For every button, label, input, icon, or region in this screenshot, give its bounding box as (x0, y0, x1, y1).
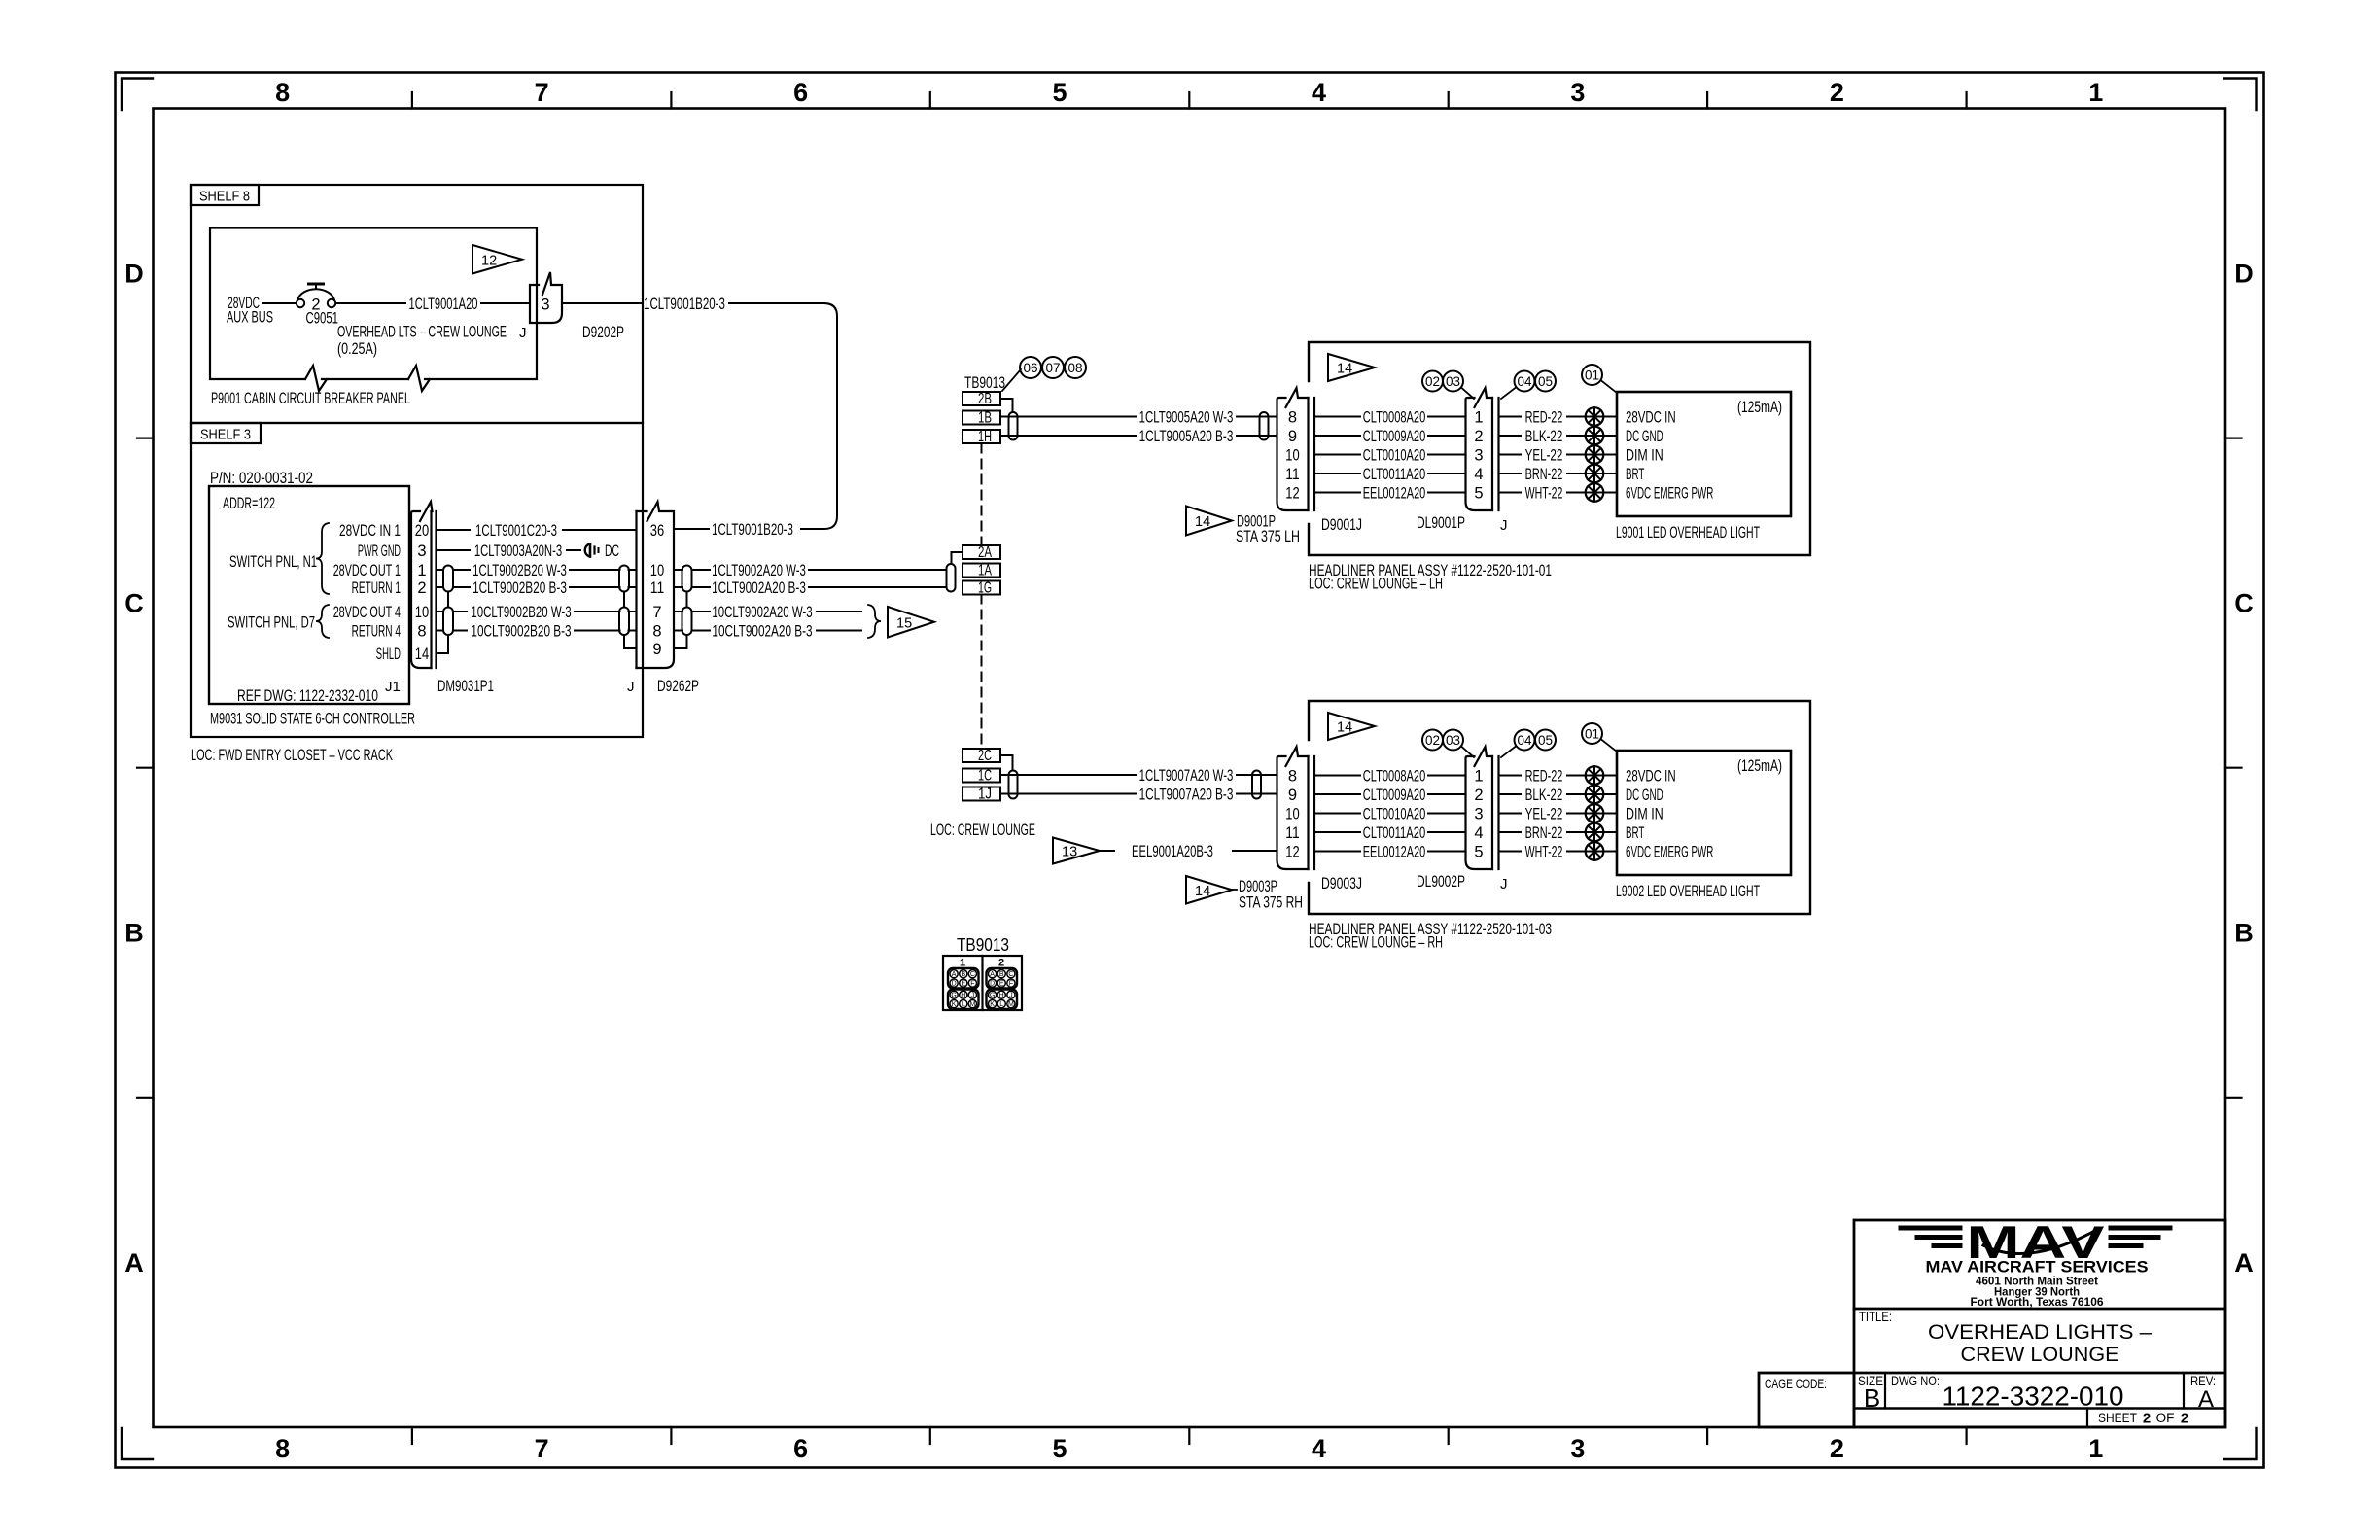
svg-text:H: H (961, 993, 965, 999)
DC ground symbol (585, 542, 619, 560)
svg-text:CLT0011A20: CLT0011A20 (1363, 824, 1426, 842)
controller pin function labels (333, 522, 401, 663)
svg-text:F: F (1009, 981, 1013, 988)
svg-text:28VDC IN 1: 28VDC IN 1 (339, 522, 401, 540)
svg-text:5: 5 (1474, 843, 1483, 860)
svg-text:REF DWG: 1122-2332-010: REF DWG: 1122-2332-010 (237, 687, 378, 705)
shielded pair 10CLT9002B20 wires W-3 / B-3 (437, 604, 620, 641)
svg-text:C: C (2234, 589, 2254, 618)
wire BRN-22 with LED lamp (1499, 465, 1618, 483)
svg-text:36: 36 (650, 522, 664, 540)
balloon 01 with leader (1582, 723, 1617, 752)
wire CLT0011A20 (1314, 824, 1466, 842)
svg-text:LOC: CREW LOUNGE: LOC: CREW LOUNGE (930, 822, 1035, 839)
connector DL9002P pins 1-5 (1417, 747, 1508, 892)
svg-text:DC: DC (605, 542, 619, 560)
label LOC: FWD ENTRY CLOSET - VCC RACK (191, 747, 393, 764)
svg-text:P/N: 020-0031-02: P/N: 020-0031-02 (210, 470, 313, 487)
svg-text:SWITCH PNL, N1: SWITCH PNL, N1 (229, 553, 317, 571)
svg-text:RED-22: RED-22 (1525, 767, 1563, 785)
label SWITCH PNL, D7 with brace (227, 605, 329, 638)
svg-text:BLK-22: BLK-22 (1525, 428, 1563, 445)
svg-text:2: 2 (1830, 78, 1844, 107)
svg-text:TB9013: TB9013 (964, 374, 1005, 392)
svg-text:3: 3 (417, 542, 426, 560)
svg-text:OVERHEAD LIGHTS –: OVERHEAD LIGHTS – (1928, 1321, 2152, 1344)
svg-text:L9002 LED OVERHEAD LIGHT: L9002 LED OVERHEAD LIGHT (1616, 883, 1760, 900)
brace and flag note 15 (868, 605, 934, 638)
terminal 1B (962, 410, 1000, 427)
svg-text:PWR GND: PWR GND (358, 542, 401, 560)
svg-text:08: 08 (1067, 361, 1082, 375)
label OVERHEAD LTS - CREW LOUNGE (0.25A) (337, 324, 507, 359)
svg-text:CLT0010A20: CLT0010A20 (1363, 805, 1426, 822)
svg-text:07: 07 (1045, 361, 1060, 375)
svg-text:28VDC OUT 4: 28VDC OUT 4 (333, 604, 401, 621)
svg-text:1A: 1A (978, 563, 992, 579)
svg-text:RETURN 4: RETURN 4 (352, 622, 401, 640)
svg-text:2: 2 (1474, 428, 1483, 445)
label LOC: CREW LOUNGE (930, 822, 1035, 839)
svg-text:D9202P: D9202P (582, 324, 624, 341)
shield capsule at TB9013 middle (947, 564, 956, 592)
svg-text:05: 05 (1538, 374, 1553, 389)
svg-text:C: C (970, 971, 975, 978)
svg-text:L: L (962, 1001, 965, 1008)
terminal block TB9013 label with leader (964, 369, 1021, 392)
svg-text:EEL9001A20B-3: EEL9001A20B-3 (1132, 843, 1213, 860)
svg-text:11: 11 (1285, 824, 1299, 842)
shield capsule before D9001J (1260, 412, 1269, 440)
shield capsule at TB9013 upper (1009, 412, 1018, 440)
svg-text:14: 14 (1195, 514, 1210, 530)
terminal 1A (962, 563, 1000, 579)
svg-text:SWITCH PNL, D7: SWITCH PNL, D7 (227, 614, 315, 632)
svg-text:6VDC EMERG PWR: 6VDC EMERG PWR (1626, 484, 1713, 502)
svg-text:A: A (2198, 1386, 2214, 1413)
svg-text:1: 1 (1474, 767, 1483, 785)
svg-text:BLK-22: BLK-22 (1525, 787, 1563, 804)
svg-text:28VDC OUT 1: 28VDC OUT 1 (333, 562, 401, 579)
svg-text:H: H (999, 993, 1004, 999)
wire 1CLT9005A20 W-3 (1000, 408, 1277, 426)
wire CLT0008A20 (1314, 767, 1466, 785)
cage code box (1759, 1373, 1854, 1427)
svg-text:C: C (1008, 971, 1013, 978)
svg-text:A: A (124, 1248, 144, 1277)
svg-text:06: 06 (1023, 361, 1037, 375)
svg-text:8: 8 (275, 1434, 290, 1463)
wire BLK-22 with LED lamp (1499, 427, 1618, 445)
headliner panel assembly box 1122-2520-101-03 (1309, 701, 1810, 952)
wire 10CLT9002A20 W-3 to flag 15 (692, 604, 862, 621)
svg-text:J1: J1 (385, 679, 401, 695)
svg-text:4: 4 (1312, 78, 1326, 107)
svg-text:C: C (124, 589, 144, 618)
svg-text:10: 10 (1285, 805, 1299, 822)
svg-text:3: 3 (541, 297, 549, 314)
svg-text:2: 2 (2181, 1411, 2188, 1427)
svg-text:8: 8 (652, 622, 661, 640)
svg-text:Fort Worth, Texas 76106: Fort Worth, Texas 76106 (1971, 1297, 2104, 1309)
svg-text:DL9001P: DL9001P (1417, 514, 1465, 532)
svg-text:B: B (124, 919, 144, 948)
svg-text:28VDC IN: 28VDC IN (1626, 408, 1676, 426)
wire 10CLT9002A20 B-3 to flag 15 (692, 622, 862, 640)
svg-text:9: 9 (1288, 428, 1297, 445)
svg-text:K: K (952, 1001, 957, 1008)
svg-text:SHELF 8: SHELF 8 (199, 189, 250, 205)
svg-text:CLT0008A20: CLT0008A20 (1363, 767, 1426, 785)
svg-text:01: 01 (1585, 726, 1599, 741)
svg-text:CLT0008A20: CLT0008A20 (1363, 408, 1426, 426)
sheet 2 of 2 (2098, 1411, 2188, 1427)
svg-text:OF: OF (2156, 1411, 2175, 1425)
svg-text:11: 11 (1285, 466, 1299, 483)
svg-text:D: D (952, 981, 957, 988)
connector DL9001P pins 1-5 (1417, 388, 1508, 534)
balloon 01 with leader (1582, 365, 1617, 393)
svg-text:AUX BUS: AUX BUS (227, 309, 273, 327)
svg-text:14: 14 (1337, 362, 1352, 377)
drawing frame inner border (154, 109, 2226, 1428)
wire 1CLT9003A20N-3 to DC ground (437, 542, 581, 560)
svg-text:DM9031P1: DM9031P1 (437, 678, 494, 695)
wire 1CLT9002A20 W-3 (692, 562, 947, 579)
svg-text:04: 04 (1517, 733, 1532, 748)
LED overhead light L9001 (125mA) (1616, 392, 1791, 542)
svg-text:2: 2 (2143, 1411, 2151, 1427)
svg-text:1G: 1G (978, 580, 992, 597)
wire 1CLT9001B20-3 from D9202P to D9262P pin 36 (562, 296, 837, 539)
svg-text:8: 8 (275, 78, 290, 107)
svg-text:CAGE CODE:: CAGE CODE: (1765, 1377, 1827, 1391)
svg-text:10CLT9002B20 B-3: 10CLT9002B20 B-3 (471, 622, 571, 640)
svg-text:L9001 LED OVERHEAD LIGHT: L9001 LED OVERHEAD LIGHT (1616, 524, 1760, 542)
svg-text:9: 9 (1288, 787, 1297, 804)
svg-text:8: 8 (1288, 408, 1297, 426)
svg-text:D9003J: D9003J (1321, 875, 1362, 892)
svg-text:1CLT9005A20 B-3: 1CLT9005A20 B-3 (1139, 428, 1234, 445)
wire YEL-22 with LED lamp (1499, 445, 1618, 464)
svg-text:10: 10 (650, 562, 664, 579)
svg-text:C9051: C9051 (306, 310, 339, 328)
svg-text:1CLT9002A20 B-3: 1CLT9002A20 B-3 (712, 579, 806, 597)
svg-text:EEL0012A20: EEL0012A20 (1363, 843, 1426, 860)
connector D9003J pins 8-12 (1277, 747, 1363, 892)
LED overhead light L9002 (125mA) (1616, 751, 1791, 900)
SHELF 8 enclosure box (191, 185, 643, 423)
MAV logo (1901, 1216, 2170, 1309)
svg-text:CLT0009A20: CLT0009A20 (1363, 787, 1426, 804)
svg-text:8: 8 (417, 622, 426, 640)
wire 1CLT9007A20 W-3 (1000, 767, 1277, 785)
wire BRN-22 with LED lamp (1499, 823, 1618, 842)
svg-text:B: B (999, 971, 1004, 978)
controller M9031 box ADDR=122 (209, 486, 415, 728)
flag note 14 inside panel (1328, 713, 1375, 740)
title block frame (1854, 1220, 2225, 1427)
svg-text:1: 1 (960, 958, 965, 969)
svg-text:DIM IN: DIM IN (1626, 805, 1663, 822)
svg-text:1B: 1B (978, 410, 992, 427)
dashed shield bus line upper (981, 444, 983, 545)
svg-text:E: E (961, 981, 965, 988)
svg-text:WHT-22: WHT-22 (1525, 484, 1563, 502)
connector DM9031P1 (J1) pins 20,3,1,2,10,8,14 (385, 502, 494, 695)
balloons 04 05 with leader (1501, 730, 1556, 758)
svg-text:1CLT9002A20 W-3: 1CLT9002A20 W-3 (712, 562, 806, 579)
svg-text:1CLT9001C20-3: 1CLT9001C20-3 (475, 522, 557, 540)
svg-text:10CLT9002A20 W-3: 10CLT9002A20 W-3 (712, 604, 812, 621)
flag note 14 at D9003P STA 375 RH (1186, 876, 1303, 912)
svg-text:RED-22: RED-22 (1525, 408, 1563, 426)
svg-text:J: J (1009, 993, 1013, 999)
svg-text:E: E (999, 981, 1004, 988)
svg-text:P9001 CABIN CIRCUIT BREAKER PA: P9001 CABIN CIRCUIT BREAKER PANEL (211, 390, 410, 407)
svg-text:2A: 2A (978, 544, 992, 561)
svg-text:1CLT9001B20-3: 1CLT9001B20-3 (712, 521, 793, 539)
shield capsules right of D9262P (674, 566, 692, 649)
svg-text:BRN-22: BRN-22 (1525, 824, 1563, 842)
flag note 14 at D9001P STA 375 LH (1186, 507, 1300, 546)
balloons 02 03 with leader (1422, 371, 1474, 400)
svg-text:1CLT9002B20 W-3: 1CLT9002B20 W-3 (472, 562, 567, 579)
svg-text:7: 7 (535, 1434, 549, 1463)
svg-text:2: 2 (417, 579, 426, 597)
svg-text:LOC: CREW LOUNGE – LH: LOC: CREW LOUNGE – LH (1309, 576, 1443, 593)
svg-text:6: 6 (793, 78, 808, 107)
svg-text:10: 10 (415, 604, 429, 621)
svg-text:6VDC EMERG PWR: 6VDC EMERG PWR (1626, 843, 1713, 860)
svg-text:5: 5 (1474, 484, 1483, 502)
svg-text:CREW LOUNGE: CREW LOUNGE (1961, 1344, 2119, 1366)
SHELF 3 enclosure box (191, 423, 643, 737)
terminal block TB9013 detail view (943, 934, 1022, 1010)
svg-text:D: D (2234, 260, 2254, 289)
svg-text:02: 02 (1425, 374, 1440, 389)
wire CLT0011A20 (1314, 466, 1466, 483)
svg-text:1: 1 (417, 562, 426, 579)
svg-text:7: 7 (652, 604, 661, 621)
svg-text:B: B (961, 971, 965, 978)
svg-text:BRN-22: BRN-22 (1525, 466, 1563, 483)
svg-text:14: 14 (1337, 720, 1352, 736)
svg-text:1CLT9007A20 B-3: 1CLT9007A20 B-3 (1139, 786, 1234, 803)
wire WHT-22 with LED lamp (1499, 842, 1618, 860)
label P/N: 020-0031-02 (210, 470, 313, 487)
svg-text:CLT0011A20: CLT0011A20 (1363, 466, 1426, 483)
svg-text:STA 375 RH: STA 375 RH (1239, 894, 1303, 912)
svg-text:M: M (1008, 1001, 1014, 1008)
wire RED-22 with LED lamp (1499, 766, 1618, 785)
size / dwg no / rev cells (1858, 1374, 2216, 1413)
shielded pair 1CLT9002B20 wires W-3 / B-3 (437, 562, 620, 597)
node 28VDC AUX BUS (227, 295, 296, 327)
connector D9202P pin 3 (519, 272, 624, 341)
shield capsules left of D9262P (619, 566, 637, 649)
svg-text:J: J (1500, 517, 1508, 534)
svg-text:2: 2 (1830, 1434, 1844, 1463)
svg-text:TB9013: TB9013 (957, 934, 1009, 955)
svg-text:DC GND: DC GND (1626, 787, 1663, 804)
svg-text:D9003P: D9003P (1239, 878, 1277, 895)
shield drain to pin 14 (437, 592, 449, 654)
svg-text:3: 3 (1474, 446, 1483, 464)
svg-text:14: 14 (1195, 884, 1210, 899)
svg-text:4: 4 (1474, 824, 1483, 842)
svg-text:15: 15 (896, 615, 912, 631)
svg-text:9: 9 (652, 641, 661, 658)
svg-text:28VDC IN: 28VDC IN (1626, 767, 1676, 785)
svg-text:8: 8 (1288, 767, 1297, 785)
wire EEL0012A20 (1314, 843, 1466, 860)
flag note 13 and wire EEL9001A20B-3 (1053, 838, 1277, 864)
P9001 cabin circuit breaker panel box (210, 228, 537, 408)
svg-text:1: 1 (2088, 1434, 2103, 1463)
svg-text:1CLT9001A20: 1CLT9001A20 (409, 296, 478, 313)
svg-text:12: 12 (1285, 843, 1299, 860)
svg-text:20: 20 (415, 522, 429, 540)
wire WHT-22 with LED lamp (1499, 483, 1618, 502)
svg-text:STA 375 LH: STA 375 LH (1236, 528, 1300, 545)
wire 1CLT9001C20-3 (437, 522, 637, 540)
svg-text:BRT: BRT (1626, 824, 1644, 842)
svg-text:ADDR=122: ADDR=122 (223, 495, 275, 512)
svg-text:1CLT9001B20-3: 1CLT9001B20-3 (644, 296, 725, 313)
wire CLT0009A20 (1314, 787, 1466, 804)
wire 1CLT9007A20 B-3 (1000, 786, 1277, 803)
terminal 2C (962, 748, 1013, 769)
svg-text:11: 11 (650, 579, 664, 597)
terminal 1G (962, 580, 1000, 597)
wire 1CLT9001A20 (336, 296, 530, 313)
svg-text:03: 03 (1446, 733, 1460, 748)
svg-text:M9031 SOLID STATE 6-CH CONTROL: M9031 SOLID STATE 6-CH CONTROLLER (210, 711, 415, 728)
svg-text:1CLT9007A20 W-3: 1CLT9007A20 W-3 (1139, 767, 1234, 785)
svg-text:12: 12 (1285, 484, 1299, 502)
flag note 14 inside panel (1328, 354, 1375, 381)
svg-text:LOC: CREW LOUNGE – RH: LOC: CREW LOUNGE – RH (1309, 934, 1443, 952)
shield capsule before D9003J (1252, 771, 1261, 799)
svg-text:DC GND: DC GND (1626, 428, 1663, 445)
svg-text:3: 3 (1570, 1434, 1585, 1463)
svg-text:F: F (970, 981, 974, 988)
svg-text:1C: 1C (978, 768, 992, 785)
svg-text:5: 5 (1052, 78, 1067, 107)
svg-text:L: L (999, 1001, 1003, 1008)
svg-text:6: 6 (793, 1434, 808, 1463)
svg-text:EEL0012A20: EEL0012A20 (1363, 484, 1426, 502)
svg-text:TITLE:: TITLE: (1859, 1310, 1892, 1324)
wire EEL0012A20 (1314, 484, 1466, 502)
svg-text:DIM IN: DIM IN (1626, 446, 1663, 464)
zone tick marks (137, 92, 2242, 1444)
balloons 02 03 with leader (1422, 730, 1474, 758)
wire RED-22 with LED lamp (1499, 407, 1618, 426)
title text OVERHEAD LIGHTS - CREW LOUNGE (1859, 1310, 2152, 1366)
label SWITCH PNL, N1 with brace (229, 523, 329, 594)
svg-text:SHLD: SHLD (376, 646, 401, 663)
wire 1CLT9005A20 B-3 (1000, 428, 1277, 445)
svg-text:03: 03 (1446, 374, 1460, 389)
svg-text:4: 4 (1474, 466, 1483, 483)
svg-text:10CLT9002A20 B-3: 10CLT9002A20 B-3 (712, 622, 812, 640)
svg-text:YEL-22: YEL-22 (1525, 446, 1563, 464)
wire CLT0008A20 (1314, 408, 1466, 426)
svg-text:01: 01 (1585, 367, 1599, 382)
wire CLT0009A20 (1314, 428, 1466, 445)
svg-text:D: D (124, 260, 144, 289)
headliner panel assembly box 1122-2520-101-01 (1309, 342, 1810, 593)
svg-text:02: 02 (1425, 733, 1440, 748)
svg-text:DL9002P: DL9002P (1417, 873, 1465, 891)
svg-text:WHT-22: WHT-22 (1525, 843, 1563, 860)
svg-text:3: 3 (1474, 805, 1483, 822)
svg-text:A: A (2234, 1248, 2254, 1277)
svg-text:K: K (990, 1001, 995, 1008)
svg-text:1CLT9003A20N-3: 1CLT9003A20N-3 (474, 542, 562, 560)
connector D9262P (J) pins 36,10,11,7,8,9 (627, 502, 699, 695)
svg-text:04: 04 (1517, 374, 1532, 389)
svg-text:LOC: FWD ENTRY CLOSET – VCC RA: LOC: FWD ENTRY CLOSET – VCC RACK (191, 747, 393, 764)
terminal 1H (962, 429, 1000, 445)
svg-text:1CLT9002B20 B-3: 1CLT9002B20 B-3 (472, 579, 567, 597)
svg-text:B: B (1864, 1383, 1880, 1413)
svg-text:(0.25A): (0.25A) (337, 340, 377, 358)
svg-text:J: J (627, 679, 635, 695)
svg-text:1H: 1H (978, 429, 992, 445)
wire BLK-22 with LED lamp (1499, 786, 1618, 804)
svg-text:2: 2 (998, 958, 1004, 969)
svg-text:DWG NO:: DWG NO: (1891, 1374, 1940, 1388)
svg-text:J: J (519, 325, 527, 341)
svg-text:1: 1 (2088, 78, 2103, 107)
wire YEL-22 with LED lamp (1499, 804, 1618, 822)
svg-text:2B: 2B (978, 391, 992, 407)
svg-text:4: 4 (1312, 1434, 1326, 1463)
svg-text:1CLT9005A20 W-3: 1CLT9005A20 W-3 (1139, 408, 1234, 426)
svg-text:CLT0010A20: CLT0010A20 (1363, 446, 1426, 464)
svg-text:J: J (1500, 876, 1508, 892)
svg-text:YEL-22: YEL-22 (1525, 805, 1563, 822)
svg-text:5: 5 (1052, 1434, 1067, 1463)
svg-text:BRT: BRT (1626, 466, 1644, 483)
svg-text:7: 7 (535, 78, 549, 107)
svg-text:13: 13 (1062, 845, 1077, 860)
svg-text:G: G (990, 993, 995, 999)
terminal 2A (952, 544, 1001, 564)
svg-text:D9001J: D9001J (1321, 516, 1362, 534)
svg-text:D9262P: D9262P (657, 678, 699, 695)
svg-text:(125mA): (125mA) (1737, 757, 1782, 775)
svg-text:MAV AIRCRAFT SERVICES: MAV AIRCRAFT SERVICES (1926, 1259, 2149, 1277)
svg-text:(125mA): (125mA) (1737, 399, 1782, 416)
connector D9001J pins 8-12 (1277, 388, 1363, 534)
svg-text:10: 10 (1285, 446, 1299, 464)
svg-text:G: G (951, 993, 956, 999)
svg-text:3: 3 (1570, 78, 1585, 107)
svg-text:RETURN 1: RETURN 1 (352, 579, 401, 597)
svg-text:J: J (971, 993, 975, 999)
svg-text:SHELF 3: SHELF 3 (200, 427, 251, 443)
flag note 12 (472, 245, 522, 274)
svg-text:12: 12 (481, 253, 497, 268)
svg-text:2C: 2C (978, 748, 992, 764)
svg-text:2: 2 (1474, 787, 1483, 804)
balloons 04 05 with leader (1501, 371, 1556, 400)
svg-text:CLT0009A20: CLT0009A20 (1363, 428, 1426, 445)
